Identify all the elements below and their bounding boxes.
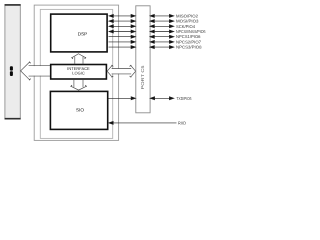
DSP box U1 <box>51 14 107 52</box>
svg-text:LOGIC: LOGIC <box>72 71 85 76</box>
wire row6 DSP-port <box>109 40 136 43</box>
hollow arrow: interface logic to connector <box>21 62 51 81</box>
pin labels <box>176 13 206 125</box>
wire row1 DSP-port <box>109 14 136 17</box>
wire row5 DSP-port <box>109 35 136 38</box>
wire row5 port-pad <box>150 35 174 38</box>
wire row1 port-pad <box>150 14 174 17</box>
wire row6 port-pad <box>150 40 174 43</box>
SIO box U3 <box>50 91 107 129</box>
wire row3 DSP-port <box>109 25 136 28</box>
outer chip boundary box A <box>34 5 118 140</box>
wire row2 DSP-port <box>109 20 136 23</box>
interface logic box U2 <box>51 65 107 80</box>
pin rows: DSP to port and port to pads <box>109 14 177 124</box>
svg-text:NPCS3/PIO8: NPCS3/PIO8 <box>176 45 202 50</box>
inner boundary box B <box>40 9 112 138</box>
wire row7 DSP-port <box>109 46 136 49</box>
svg-text:PORT C5: PORT C5 <box>140 64 145 89</box>
hollow double arrow: interface logic to port box <box>107 65 135 77</box>
svg-text:SIO: SIO <box>76 107 84 112</box>
svg-text:TXD/PIO5: TXD/PIO5 <box>177 96 193 101</box>
hollow arrow: interface logic up to DSP <box>72 54 87 64</box>
wire row7 port-pad <box>150 46 174 49</box>
wire row3 port-pad <box>150 25 174 28</box>
wire row4 port-pad <box>150 30 174 33</box>
wire row4 DSP-port <box>109 30 136 33</box>
connector bar J1 <box>5 5 21 119</box>
wire row2 port-pad <box>150 20 174 23</box>
svg-text:DSP: DSP <box>78 31 87 36</box>
wire RXD pad-SIO <box>109 121 177 124</box>
hollow arrow: interface logic down to SIO <box>71 79 87 90</box>
svg-text:RXD: RXD <box>178 121 186 126</box>
port box <box>136 6 150 113</box>
wire TXD port-pad <box>150 97 174 100</box>
wire TXD SIO-port <box>109 97 136 100</box>
